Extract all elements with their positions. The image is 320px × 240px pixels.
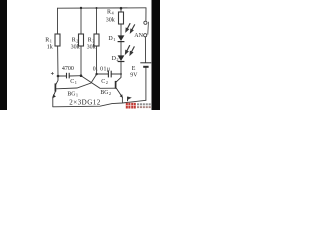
svg-text:9V: 9V — [130, 72, 138, 78]
junction node dots — [57, 7, 123, 77]
switch AN contact circles — [144, 21, 149, 37]
wire R3 bottom — [96, 46, 98, 74]
svg-text:2: 2 — [106, 80, 108, 85]
svg-text:R: R — [45, 37, 49, 43]
resistor R2 — [79, 34, 84, 46]
node rail-R2 — [80, 7, 82, 9]
label C2 — [101, 79, 108, 85]
svg-text:R: R — [107, 9, 111, 15]
svg-text:2: 2 — [76, 39, 78, 44]
svg-text:30k: 30k — [71, 45, 80, 51]
battery E plates — [140, 63, 151, 67]
wire R3 branch top — [96, 8, 98, 34]
wire R4 to D1 — [120, 24, 122, 35]
svg-text:3: 3 — [92, 39, 94, 44]
svg-text:1: 1 — [75, 80, 77, 85]
svg-text:R: R — [72, 37, 76, 43]
svg-text:2: 2 — [109, 91, 111, 96]
wire C2 right — [111, 73, 121, 75]
watermark gray text row1 — [137, 103, 151, 105]
label C1 — [70, 79, 77, 85]
label BG1 — [67, 92, 78, 98]
wire BG2 emitter drop — [121, 97, 123, 103]
LED D2 — [118, 55, 125, 61]
node R3 / C2 left — [95, 73, 97, 75]
watermark red characters — [126, 103, 136, 109]
LED D2 light arrows — [126, 45, 135, 55]
transistor BG1 emitter arrowhead — [52, 94, 56, 98]
node rail-R4 — [120, 7, 123, 10]
svg-text:C: C — [70, 79, 74, 85]
transistor BG2 — [116, 74, 123, 97]
label BG2 — [100, 90, 111, 96]
wire R1 bottom to collector node — [57, 46, 59, 76]
white background — [0, 0, 160, 110]
watermark flag mark — [127, 97, 132, 102]
LED D1 — [118, 35, 125, 41]
svg-text:30k: 30k — [87, 45, 96, 51]
label R1 1k — [45, 37, 53, 50]
LED D1 light arrows — [126, 23, 135, 32]
capacitor C2 plates (0.01u) — [108, 71, 111, 78]
svg-text:2: 2 — [116, 57, 118, 62]
svg-text:BG: BG — [67, 92, 75, 98]
wire R2 bottom — [80, 46, 82, 76]
right black bar — [152, 0, 161, 110]
label D2 — [112, 56, 119, 62]
svg-text:1: 1 — [113, 37, 115, 42]
svg-text:1: 1 — [50, 39, 52, 44]
node BG2 collector / C2 right — [120, 73, 122, 75]
left black bar — [0, 0, 7, 110]
switch AN lever bar — [147, 22, 150, 35]
svg-text:4700: 4700 — [62, 66, 74, 72]
wire BG1 emitter drop — [52, 97, 54, 106]
capacitor C1 plates (4700) — [67, 73, 70, 79]
wire C2 left — [97, 73, 109, 75]
node rail-R3 — [96, 7, 98, 9]
label R4 30k — [106, 9, 115, 23]
label D1 — [108, 36, 115, 42]
watermark text row2 — [137, 106, 151, 108]
wire C1 left — [58, 75, 66, 77]
wire cross-coupling A: R2/C1 node to BG2 base — [81, 76, 115, 89]
transistor BG1 — [53, 76, 58, 97]
svg-text:E: E — [132, 66, 136, 72]
svg-text:30k: 30k — [106, 18, 115, 24]
svg-text:1k: 1k — [47, 45, 53, 51]
wire D2 to collector node — [120, 62, 122, 74]
label R2 30k — [71, 37, 80, 50]
transistor BG2 emitter arrowhead — [120, 94, 123, 98]
wire D1 to D2 — [120, 42, 122, 56]
svg-text:0. 01μ: 0. 01μ — [93, 66, 111, 72]
resistor R4 — [119, 12, 124, 24]
wire switch column top — [145, 8, 147, 21]
node BG1 collector / C1 left — [57, 75, 60, 78]
node R2 / C1 right — [80, 74, 83, 77]
label R3 30k — [87, 37, 96, 50]
wire top supply rail — [58, 7, 147, 9]
wire cross-coupling B: R3/C2 node to BG1 base — [56, 74, 96, 89]
svg-text:R: R — [88, 37, 92, 43]
wire R4 branch top — [120, 8, 122, 12]
wire bottom ground rail (slightly skewed scan) — [53, 100, 146, 107]
resistor R3 — [94, 34, 99, 46]
wire R1 branch top — [57, 8, 59, 34]
svg-text:BG: BG — [100, 90, 108, 96]
svg-text:2×3DG12: 2×3DG12 — [69, 99, 101, 107]
wire battery to bottom rail — [145, 67, 147, 101]
wire R2 branch top — [80, 8, 82, 34]
svg-text:C: C — [101, 79, 105, 85]
svg-text:1: 1 — [76, 93, 78, 98]
wire switch to battery — [144, 37, 146, 63]
wire C1 right — [69, 75, 81, 77]
polarity plus of C1 — [51, 72, 54, 75]
svg-text:AN: AN — [134, 33, 143, 39]
resistor R1 — [55, 34, 60, 46]
